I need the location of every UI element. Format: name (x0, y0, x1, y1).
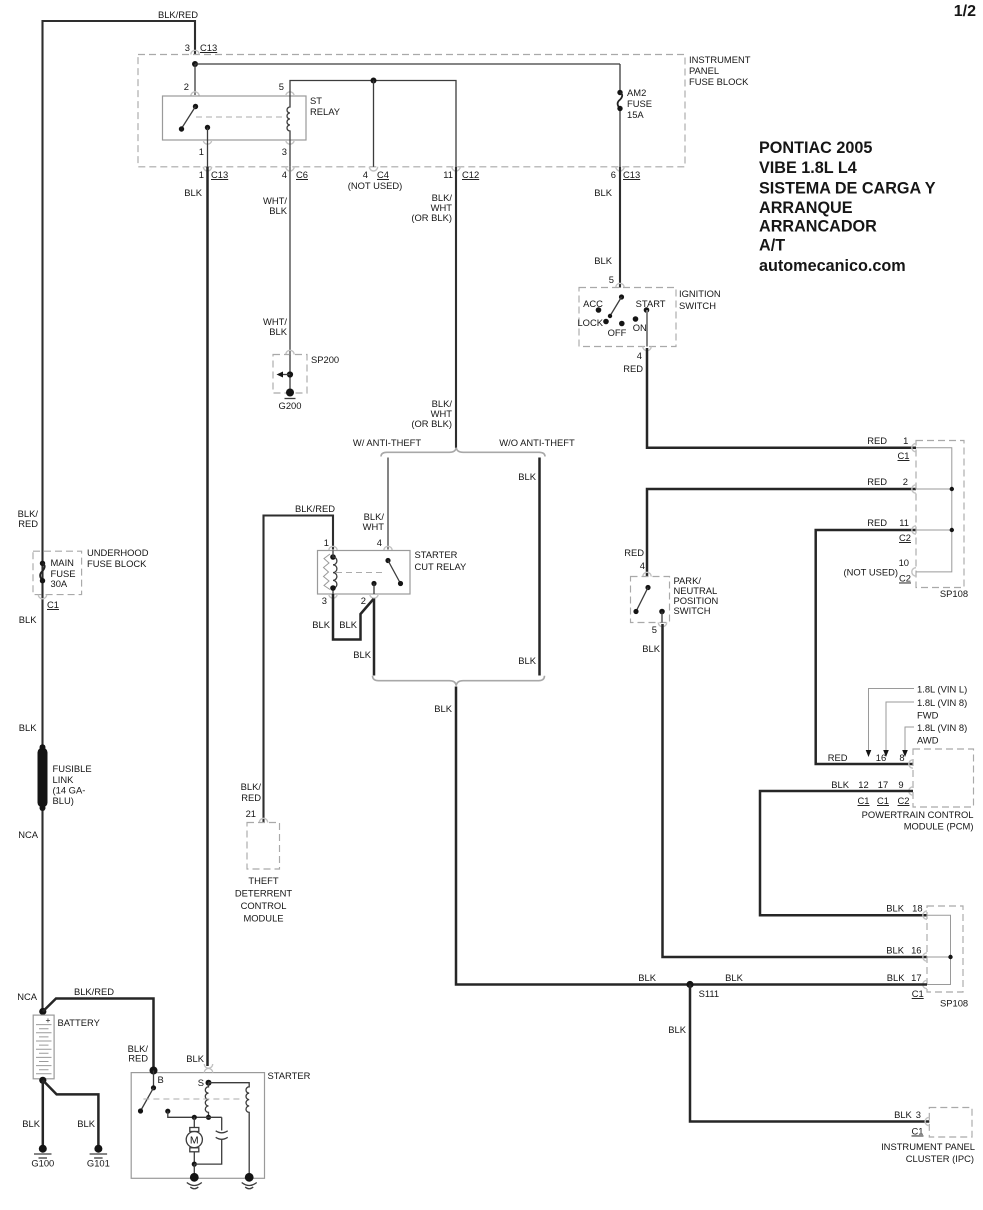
svg-text:SP108: SP108 (940, 588, 968, 599)
svg-text:4: 4 (377, 537, 382, 548)
svg-text:SP108: SP108 (940, 998, 968, 1009)
svg-text:2: 2 (903, 476, 908, 487)
svg-text:3: 3 (185, 42, 190, 53)
svg-text:STARTER: STARTER (415, 549, 458, 560)
svg-text:INSTRUMENT: INSTRUMENT (689, 54, 751, 65)
svg-text:1.8L (VIN 8): 1.8L (VIN 8) (917, 722, 967, 733)
svg-text:+: + (46, 1015, 51, 1025)
wire BLK center drop to S111 line (434, 687, 690, 985)
starter cut relay switch (371, 558, 403, 594)
svg-text:5: 5 (279, 81, 284, 92)
SP108 splice bottom (923, 906, 968, 1009)
svg-text:NCA: NCA (17, 991, 38, 1002)
ST relay coil (287, 96, 290, 140)
svg-text:12: 12 (858, 779, 868, 790)
svg-text:C13: C13 (200, 42, 217, 53)
wire BLK S111 to instrument panel cluster (668, 985, 929, 1137)
connector 6 C13 bottom (611, 167, 640, 180)
svg-text:3: 3 (916, 1109, 921, 1120)
svg-text:15A: 15A (627, 109, 644, 120)
svg-text:1: 1 (324, 537, 329, 548)
wire BLK/RED to theft deterrent module pin 21 (241, 781, 262, 819)
svg-text:BLK: BLK (269, 326, 287, 337)
svg-text:BLU): BLU) (53, 795, 74, 806)
connector starter S entry (204, 1064, 212, 1073)
wire BLK from fuse 6 C13 to ignition switch (594, 167, 620, 288)
wire BLK from pin1 C13 down to starter S (184, 167, 207, 1066)
wire bus to AM2 fuse (195, 63, 620, 65)
starter cut relay box (318, 546, 467, 594)
svg-text:WHT: WHT (363, 521, 385, 532)
svg-text:VIBE 1.8L L4: VIBE 1.8L L4 (759, 159, 857, 177)
svg-text:BLK: BLK (339, 619, 357, 630)
powertrain control module box (862, 749, 974, 832)
wire BLK park/neutral to SP108 pin16 (642, 624, 927, 957)
connector pin 3 C13 (191, 50, 199, 54)
svg-text:FUSE BLOCK: FUSE BLOCK (689, 76, 749, 87)
SP108 pin10 not used label (843, 557, 911, 584)
svg-text:BLK: BLK (434, 703, 452, 714)
callout 1.8L (VIN 8) AWD (902, 722, 967, 757)
svg-text:9: 9 (898, 779, 903, 790)
svg-text:BLK/: BLK/ (241, 781, 262, 792)
starter motor ground (187, 1164, 202, 1189)
ignition contact ON (633, 316, 647, 333)
connector ignition pin 5 (616, 283, 624, 287)
wire labels BLK/RED left column (18, 508, 39, 529)
svg-text:RED: RED (867, 476, 887, 487)
svg-text:BLK: BLK (186, 1053, 204, 1064)
wire relay pin 5 feed (279, 81, 456, 167)
split brace anti-theft options (353, 437, 575, 457)
wire WHT/BLK from pin4 C6 to SP200 (263, 167, 290, 355)
svg-text:ACC: ACC (583, 298, 603, 309)
svg-text:BLK/RED: BLK/RED (295, 503, 335, 514)
svg-text:1: 1 (199, 169, 204, 180)
svg-text:LOCK: LOCK (577, 317, 603, 328)
svg-text:BLK/RED: BLK/RED (74, 986, 114, 997)
svg-text:BLK: BLK (638, 972, 656, 983)
instrument panel cluster box (881, 1108, 975, 1165)
svg-text:(OR BLK): (OR BLK) (411, 418, 452, 429)
svg-text:1/2: 1/2 (954, 3, 976, 20)
svg-text:BLK/RED: BLK/RED (158, 9, 198, 20)
svg-text:17: 17 (878, 779, 888, 790)
svg-text:BLK: BLK (725, 972, 743, 983)
wire RED SP108 pin11 to PCM (816, 517, 916, 764)
svg-text:BLK: BLK (886, 903, 904, 914)
svg-text:(NOT USED): (NOT USED) (843, 567, 898, 578)
wire RED ignition to SP108 pin1 (647, 348, 916, 461)
starter coil ground (242, 1173, 257, 1189)
svg-text:S111: S111 (699, 988, 720, 999)
node battery negative (39, 1077, 46, 1084)
svg-text:ARRANCADOR: ARRANCADOR (759, 218, 877, 236)
svg-text:BLK: BLK (312, 619, 330, 630)
svg-text:C12: C12 (462, 169, 479, 180)
svg-text:THEFT: THEFT (248, 875, 278, 886)
svg-text:C2: C2 (899, 573, 911, 584)
ignition contact LOCK (577, 317, 608, 328)
svg-text:AM2: AM2 (627, 87, 646, 98)
svg-text:RED: RED (624, 547, 644, 558)
node splice at pin3 (192, 61, 198, 67)
node S111 (686, 981, 719, 999)
svg-text:1: 1 (903, 435, 908, 446)
svg-text:G200: G200 (279, 400, 302, 411)
svg-text:FUSE: FUSE (627, 98, 652, 109)
svg-text:BLK: BLK (831, 779, 849, 790)
svg-text:MAIN: MAIN (51, 557, 74, 568)
svg-text:3: 3 (282, 146, 287, 157)
svg-text:C1: C1 (858, 795, 870, 806)
svg-text:11: 11 (899, 517, 909, 528)
svg-text:B: B (158, 1074, 164, 1085)
svg-text:C1: C1 (47, 599, 59, 610)
svg-text:1: 1 (199, 146, 204, 157)
svg-text:C2: C2 (899, 532, 911, 543)
svg-text:AWD: AWD (917, 735, 939, 746)
svg-text:OFF: OFF (608, 327, 627, 338)
svg-text:BLK: BLK (668, 1024, 686, 1035)
connector ignition pin 4 (623, 347, 651, 375)
svg-text:C2: C2 (898, 795, 910, 806)
starter B terminal (150, 1067, 164, 1086)
svg-text:RED: RED (241, 792, 261, 803)
connector park/neutral pin 4 (624, 547, 651, 577)
main fuse 30A (40, 557, 76, 589)
connector relay pin 3 (282, 140, 294, 167)
svg-text:3: 3 (322, 595, 327, 606)
svg-text:(OR BLK): (OR BLK) (411, 212, 452, 223)
svg-text:SISTEMA DE CARGA Y: SISTEMA DE CARGA Y (759, 180, 936, 198)
svg-text:BLK: BLK (22, 1118, 40, 1129)
starter pull-in coil right (209, 1083, 250, 1178)
ignition contact ACC (583, 298, 603, 313)
svg-text:11: 11 (443, 169, 453, 180)
svg-text:2: 2 (361, 595, 366, 606)
starter capacitor (194, 1117, 227, 1164)
underhood fuse block (33, 547, 149, 595)
svg-text:BLK: BLK (77, 1118, 95, 1129)
wire BLK/RED battery-positive to fuse block pin 3 (43, 9, 199, 1011)
svg-text:4: 4 (363, 169, 368, 180)
svg-text:5: 5 (609, 274, 614, 285)
svg-text:C4: C4 (377, 169, 389, 180)
wire BLK labels left (19, 614, 37, 733)
svg-text:CLUSTER (IPC): CLUSTER (IPC) (906, 1153, 974, 1164)
svg-text:G101: G101 (87, 1158, 110, 1169)
svg-text:8: 8 (899, 752, 904, 763)
svg-text:5: 5 (652, 624, 657, 635)
wire pin3 to relay pin 2 (184, 64, 195, 95)
starter motor M (186, 1117, 202, 1166)
svg-text:C1: C1 (912, 988, 924, 999)
svg-text:A/T: A/T (759, 237, 785, 255)
svg-text:2: 2 (184, 81, 189, 92)
svg-text:16: 16 (876, 752, 886, 763)
fusible link (14 GA-BLU) (40, 744, 92, 811)
svg-text:FUSIBLE: FUSIBLE (53, 763, 92, 774)
battery (33, 1015, 100, 1079)
svg-text:BLK: BLK (894, 1109, 912, 1120)
svg-text:NCA: NCA (18, 829, 39, 840)
PCM BLK pin labels (858, 779, 910, 806)
svg-text:4: 4 (637, 350, 642, 361)
svg-text:RED: RED (867, 517, 887, 528)
svg-text:(NOT USED): (NOT USED) (348, 180, 403, 191)
connector pins 3 and 2 (322, 594, 378, 606)
svg-text:RED: RED (18, 518, 38, 529)
svg-text:1.8L (VIN 8): 1.8L (VIN 8) (917, 697, 967, 708)
callout 1.8L (VIN 8) FWD (883, 697, 967, 757)
ignition contact OFF (608, 321, 627, 338)
wire BLK pin3 to pin2 loop (312, 594, 373, 640)
svg-text:30A: 30A (51, 578, 68, 589)
svg-text:POWERTRAIN CONTROL: POWERTRAIN CONTROL (862, 809, 974, 820)
wire labels NCA (17, 829, 39, 1002)
connector relay pin 1 (199, 140, 212, 167)
svg-text:10: 10 (899, 557, 909, 568)
ignition switch box (579, 288, 721, 347)
connector park/neutral pin 5 (652, 623, 667, 636)
title block (759, 139, 936, 275)
starter S terminal (198, 1077, 212, 1088)
connector 4 C6 bottom (282, 167, 308, 180)
svg-text:BLK: BLK (887, 972, 905, 983)
SP108 splice top (912, 441, 968, 600)
svg-text:BLK: BLK (594, 187, 612, 198)
PCM RED pin labels (828, 752, 905, 763)
pin 3 C13 label (185, 42, 217, 53)
park/neutral position switch box (631, 575, 719, 623)
wire junction to C4 pin (373, 81, 375, 167)
svg-text:G100: G100 (31, 1158, 54, 1169)
svg-text:21: 21 (246, 808, 256, 819)
instrument panel fuse block (138, 54, 751, 167)
svg-text:RED: RED (128, 1053, 148, 1064)
svg-text:FUSE BLOCK: FUSE BLOCK (87, 558, 147, 569)
svg-text:ON: ON (633, 322, 647, 333)
svg-text:MODULE (PCM): MODULE (PCM) (904, 821, 974, 832)
svg-text:BLK: BLK (594, 255, 612, 266)
svg-text:STARTER: STARTER (268, 1070, 311, 1081)
svg-text:FWD: FWD (917, 710, 939, 721)
svg-text:CONTROL: CONTROL (241, 900, 287, 911)
wire BLK S111 to SP108 pin17 (690, 972, 927, 999)
starter B switch lever (138, 1071, 156, 1114)
wire BLK/RED feed to starter cut relay pin1 and theft module (264, 503, 336, 823)
svg-text:ARRANQUE: ARRANQUE (759, 199, 853, 217)
svg-text:IGNITION: IGNITION (679, 288, 721, 299)
svg-text:S: S (198, 1077, 204, 1088)
wire BLK/WHT anti-theft branch (363, 458, 388, 550)
svg-text:1.8L (VIN L): 1.8L (VIN L) (917, 684, 967, 695)
svg-text:C6: C6 (296, 169, 308, 180)
svg-text:BATTERY: BATTERY (58, 1017, 101, 1028)
svg-text:4: 4 (282, 169, 287, 180)
svg-text:C13: C13 (211, 169, 228, 180)
svg-text:RED: RED (623, 363, 643, 374)
node junction to C4 (371, 78, 377, 84)
svg-text:W/O ANTI-THEFT: W/O ANTI-THEFT (499, 437, 575, 448)
ground G101 (87, 1145, 110, 1169)
wire RED SP108 pin2 to park/neutral (647, 476, 916, 577)
svg-text:RED: RED (867, 435, 887, 446)
ignition switch lever (608, 294, 624, 318)
svg-text:RELAY: RELAY (310, 106, 341, 117)
ignition contact START (636, 298, 666, 313)
svg-text:C1: C1 (877, 795, 889, 806)
svg-text:17: 17 (911, 972, 921, 983)
connector 4 C4 not used (348, 167, 403, 191)
svg-text:BLK: BLK (19, 722, 37, 733)
svg-text:DETERRENT: DETERRENT (235, 888, 293, 899)
connector 11 C12 bottom (443, 167, 479, 180)
svg-text:BLK: BLK (184, 187, 202, 198)
ST relay mechanical dashed link (196, 116, 285, 118)
connector C1 underhood (38, 595, 59, 610)
svg-text:BLK: BLK (642, 643, 660, 654)
wire BLK/RED battery to starter B (43, 986, 154, 1068)
svg-text:BLK: BLK (886, 945, 904, 956)
ST relay box (163, 95, 341, 140)
ground G100 (31, 1145, 54, 1169)
svg-text:(14 GA-: (14 GA- (53, 785, 86, 796)
AM2 fuse 15A (617, 64, 652, 167)
starter hold-in coil (205, 1083, 211, 1120)
svg-text:BLK: BLK (19, 614, 37, 625)
ground G200 (279, 389, 302, 412)
svg-text:C1: C1 (912, 1126, 924, 1137)
wire BLK PCM grounds to SP108 pin18 (760, 779, 927, 915)
splice SP200 (273, 350, 339, 393)
wire BLK/WHT from pin11 C12 down to split (411, 167, 456, 448)
connector relay pin 2 (191, 92, 199, 96)
svg-text:UNDERHOOD: UNDERHOOD (87, 547, 149, 558)
wire BLK to G100 (22, 1080, 43, 1148)
ST relay switch (179, 104, 210, 140)
svg-text:PANEL: PANEL (689, 65, 719, 76)
svg-text:SWITCH: SWITCH (679, 300, 716, 311)
svg-text:SP200: SP200 (311, 354, 339, 365)
node battery positive (39, 1008, 46, 1015)
connector 1 C13 bottom (199, 167, 228, 180)
svg-text:INSTRUMENT PANEL: INSTRUMENT PANEL (881, 1141, 975, 1152)
svg-text:PONTIAC 2005: PONTIAC 2005 (759, 139, 872, 157)
svg-text:6: 6 (611, 169, 616, 180)
starter assembly box (131, 1070, 310, 1178)
svg-text:C13: C13 (623, 169, 640, 180)
svg-text:C1: C1 (898, 450, 910, 461)
wire START to pin 4 (646, 310, 648, 347)
starter dashed link (143, 1098, 242, 1100)
svg-text:18: 18 (912, 903, 922, 914)
starter switch contact to motor bus (165, 1109, 222, 1120)
theft deterrent control module (235, 818, 293, 923)
svg-text:automecanico.com: automecanico.com (759, 257, 906, 275)
svg-text:M: M (190, 1135, 199, 1147)
svg-text:W/ ANTI-THEFT: W/ ANTI-THEFT (353, 437, 421, 448)
svg-text:LINK: LINK (53, 774, 75, 785)
callout 1.8L (VIN L) (866, 684, 968, 758)
svg-text:START: START (636, 298, 666, 309)
park/neutral switch lever (633, 585, 664, 623)
svg-text:ST: ST (310, 95, 322, 106)
svg-text:BLK: BLK (518, 655, 536, 666)
svg-text:BLK: BLK (353, 649, 371, 660)
svg-text:4: 4 (640, 560, 645, 571)
starter cut relay dashed link (336, 572, 384, 574)
svg-text:SWITCH: SWITCH (674, 605, 711, 616)
svg-text:RED: RED (828, 752, 848, 763)
wire BLK w/o anti-theft branch (518, 458, 539, 676)
svg-text:CUT RELAY: CUT RELAY (415, 561, 467, 572)
svg-text:MODULE: MODULE (243, 913, 283, 924)
starter cut relay coil (324, 551, 337, 595)
wire BLK to G101 (43, 1080, 99, 1148)
svg-text:BLK: BLK (518, 471, 536, 482)
rejoin brace (373, 676, 545, 686)
svg-text:BLK: BLK (269, 205, 287, 216)
wire BLK pin2 drop (353, 599, 374, 676)
svg-text:16: 16 (911, 945, 921, 956)
